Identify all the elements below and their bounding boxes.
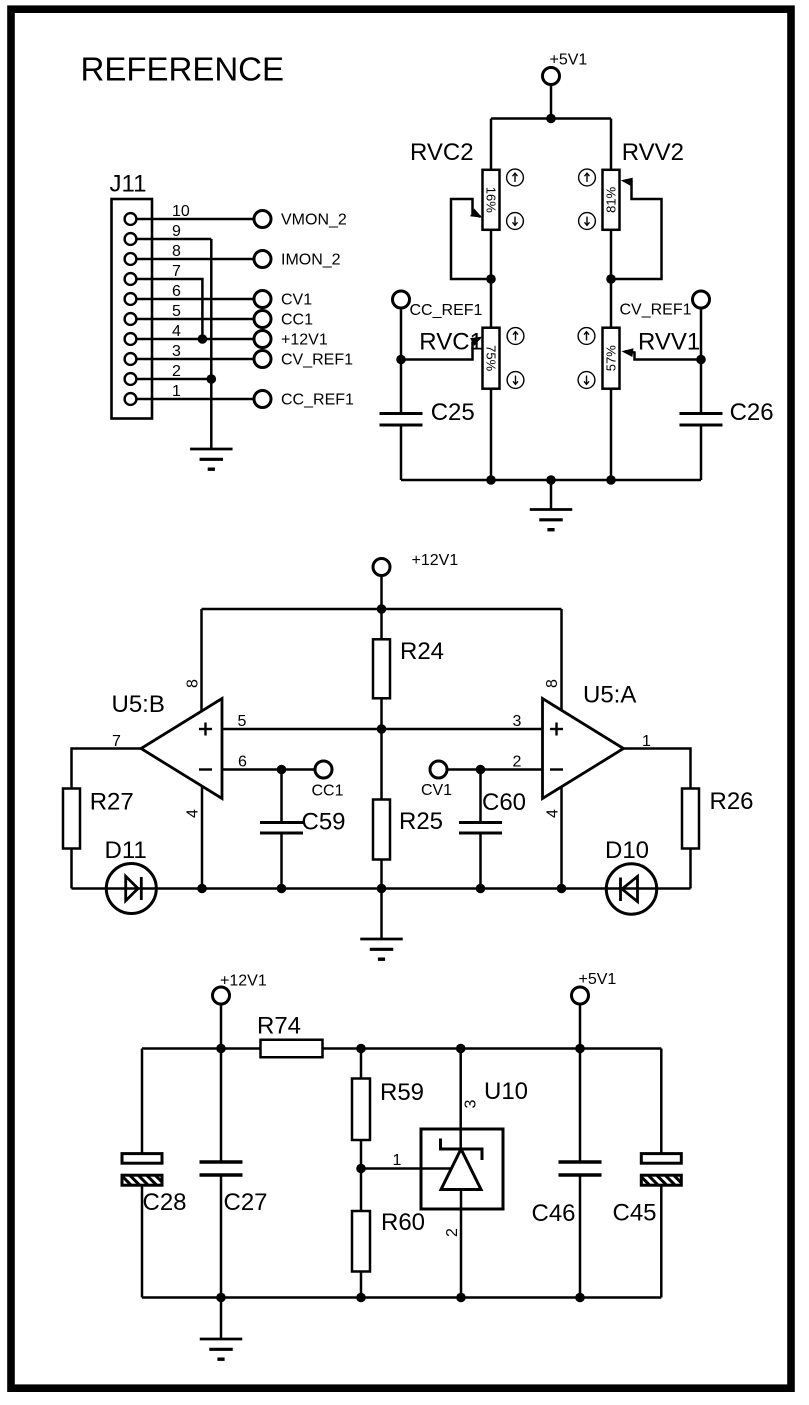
- svg-text:R74: R74: [257, 1013, 301, 1040]
- op-amp U5:A: [543, 699, 624, 799]
- svg-text:4: 4: [544, 809, 561, 818]
- svg-text:CV_REF1: CV_REF1: [281, 351, 353, 368]
- capacitor C46: [559, 1162, 602, 1175]
- wire C28 top stem: [141, 1049, 144, 1154]
- ground bottom section: [200, 1339, 243, 1359]
- junction R60 / bottom rail: [356, 1293, 366, 1303]
- wire CV_REF1 stem: [700, 308, 703, 360]
- svg-text:2: 2: [172, 363, 181, 380]
- wire U10 pin 1: [361, 1167, 452, 1170]
- svg-text:RVV1: RVV1: [638, 329, 700, 356]
- RVV2 adjust arrows: [579, 169, 596, 229]
- terminal +12V1: [254, 331, 271, 348]
- wire C46 top stem: [579, 1049, 582, 1161]
- wire U5:A pin 4 vertical: [560, 782, 563, 889]
- wire ground stem (bottom): [220, 1298, 223, 1340]
- svg-text:RVC2: RVC2: [410, 139, 474, 166]
- junction RVV2 wiper node: [606, 274, 616, 284]
- wire C46 bottom stem: [579, 1175, 582, 1298]
- wire top rail (bottom section): [142, 1047, 661, 1050]
- svg-text:8: 8: [184, 679, 201, 688]
- svg-text:R26: R26: [710, 788, 754, 815]
- wire J11 pin 4 to +12V1 terminal: [137, 338, 255, 341]
- junction R59 / rail: [356, 1044, 366, 1054]
- svg-text:IMON_2: IMON_2: [281, 251, 341, 268]
- svg-text:U10: U10: [484, 1078, 528, 1105]
- svg-text:C45: C45: [613, 1200, 657, 1227]
- wire noninverting inputs pin5-pin3: [222, 728, 543, 731]
- U10 zener cathode bar: [441, 1139, 483, 1161]
- svg-text:+12V1: +12V1: [412, 552, 459, 569]
- svg-text:75%: 75%: [483, 345, 498, 371]
- svg-text:R25: R25: [399, 808, 443, 835]
- svg-text:4: 4: [184, 809, 201, 818]
- svg-text:+5V1: +5V1: [550, 52, 588, 69]
- capacitor C45 (electrolytic): [641, 1154, 681, 1186]
- terminal +12V1 (middle): [373, 559, 390, 576]
- junction R24/R25 node: [377, 724, 387, 734]
- capacitor C59: [260, 823, 303, 834]
- svg-text:8: 8: [172, 243, 181, 260]
- wire U5:B pin 7 output: [72, 749, 142, 789]
- wire R24 top: [380, 609, 383, 639]
- capacitor C28 (electrolytic): [122, 1154, 162, 1186]
- wire C25 top stem: [400, 360, 403, 413]
- wire J11 pin 5 to CC1: [137, 318, 255, 321]
- junction RVV1 bottom: [606, 475, 616, 485]
- J11 pin 10 circle: [125, 213, 137, 225]
- wire R27 bottom: [70, 849, 73, 889]
- wire rail to RVV2 top: [610, 119, 613, 170]
- svg-text:8: 8: [544, 679, 561, 688]
- connector J11 body: [112, 199, 153, 419]
- resistor R24: [373, 639, 390, 698]
- junction +12V1 / rail: [216, 1044, 226, 1054]
- junction +5V1 / rail: [575, 1044, 585, 1054]
- junction CV_REF1 node: [696, 355, 706, 365]
- U10 zener triangle: [441, 1149, 481, 1190]
- svg-text:6: 6: [172, 283, 181, 300]
- wire C26 top stem: [700, 360, 703, 413]
- wire C60 top stem: [479, 770, 482, 822]
- terminal CC1: [254, 311, 271, 328]
- junction R59/R60/U10 pin1: [356, 1164, 366, 1174]
- resistor R26: [682, 789, 699, 849]
- wire R60 top: [360, 1169, 363, 1212]
- junction ground stem top-right: [546, 475, 556, 485]
- wire J11 ground vertical: [210, 239, 213, 449]
- svg-text:C46: C46: [532, 1200, 576, 1227]
- wire reference ground rail: [401, 479, 701, 482]
- resistor R59: [352, 1079, 370, 1141]
- terminal CC_REF1 (top): [393, 291, 410, 308]
- wire U5:A pin 2 to CV1: [447, 768, 543, 771]
- terminal CV1 (middle): [430, 761, 447, 778]
- junction J11 pin2/ground: [207, 374, 217, 384]
- wire C27 bottom stem: [220, 1175, 223, 1298]
- svg-text:CC1: CC1: [311, 783, 343, 800]
- wire R24 bottom: [380, 698, 383, 729]
- svg-text:U5:B: U5:B: [112, 691, 165, 718]
- wire C59 top stem: [280, 770, 283, 822]
- wire RVC2 wiper: [451, 199, 491, 279]
- wire +5V1 stem (bottom): [579, 1004, 582, 1049]
- wire RVC2 bottom to RVC1 top: [490, 230, 493, 328]
- svg-text:81%: 81%: [604, 186, 619, 212]
- capacitor C26: [680, 414, 723, 426]
- wire J11 pin 7 to +12V1 net: [137, 279, 203, 339]
- wire C25 bottom stem: [400, 427, 403, 481]
- wire U10 pin 3 vertical: [459, 1049, 462, 1150]
- wire RVV1 bottom: [610, 389, 613, 480]
- J11 pin 5 circle: [125, 313, 137, 325]
- svg-text:D10: D10: [605, 837, 649, 864]
- svg-text:1: 1: [393, 1152, 402, 1169]
- J11 pin 4 circle: [125, 333, 137, 345]
- junction C46 / bottom rail: [575, 1293, 585, 1303]
- wire +12V1 stem (bottom): [220, 1004, 223, 1049]
- terminal IMON_2: [254, 251, 271, 268]
- op-amp U5:B: [141, 699, 222, 799]
- junction C59 / rail: [277, 884, 287, 894]
- junction C60 / rail: [476, 884, 486, 894]
- wire C59 bottom stem: [280, 835, 283, 889]
- J11 pin 7 circle: [125, 273, 137, 285]
- svg-text:+12V1: +12V1: [281, 331, 328, 348]
- svg-text:+5V1: +5V1: [579, 971, 617, 988]
- svg-text:1: 1: [642, 733, 651, 750]
- svg-text:2: 2: [444, 1228, 461, 1237]
- wire J11 pin 9 to ground net: [137, 238, 212, 241]
- wire R25 bottom: [380, 860, 383, 889]
- capacitor C25: [380, 414, 423, 426]
- svg-text:9: 9: [172, 223, 181, 240]
- svg-text:R27: R27: [90, 789, 134, 816]
- J11 pin 1 circle: [125, 393, 137, 405]
- RVC2 adjust arrows: [507, 169, 524, 229]
- svg-text:C59: C59: [302, 809, 346, 836]
- svg-text:R59: R59: [380, 1079, 424, 1106]
- svg-text:+12V1: +12V1: [220, 973, 267, 990]
- svg-text:CV1: CV1: [421, 782, 452, 799]
- resistor R60: [352, 1211, 370, 1272]
- resistor R27: [63, 789, 80, 849]
- capacitor C60: [459, 823, 502, 834]
- RVV2 wiper arrowhead: [621, 178, 633, 187]
- wire U5:B pin 4 vertical: [201, 782, 204, 889]
- svg-text:R60: R60: [381, 1209, 425, 1236]
- J11 pin 8 circle: [125, 253, 137, 265]
- wire rail to RVC2 top: [490, 119, 493, 170]
- wire J11 pin 6 to CV1: [137, 298, 255, 301]
- wire RVV2 wiper: [611, 181, 662, 279]
- junction U5:B pin4 / rail: [197, 884, 207, 894]
- svg-text:7: 7: [172, 263, 181, 280]
- wire U5:A pin 8 vertical: [560, 609, 563, 715]
- junction C60 node: [476, 765, 486, 775]
- svg-text:J11: J11: [110, 171, 147, 198]
- svg-text:2: 2: [513, 754, 522, 771]
- svg-text:5: 5: [172, 303, 181, 320]
- wire J11 pin 1 to CC_REF1: [137, 398, 255, 401]
- wire J11 pin 3 to CV_REF1: [137, 358, 255, 361]
- svg-text:57%: 57%: [604, 345, 619, 371]
- svg-text:C60: C60: [482, 789, 526, 816]
- diode D10: [606, 864, 656, 914]
- svg-text:C28: C28: [143, 1189, 187, 1216]
- terminal CC_REF1: [254, 391, 271, 408]
- wire C60 bottom stem: [479, 835, 482, 889]
- RVC2 wiper arrowhead: [470, 209, 482, 218]
- wire RVC1 wiper: [401, 338, 480, 360]
- svg-text:C25: C25: [431, 399, 475, 426]
- svg-text:VMON_2: VMON_2: [281, 211, 347, 228]
- wire J11 pin 2 to ground net: [137, 378, 212, 381]
- svg-text:4: 4: [172, 323, 181, 340]
- wire R60 bottom: [360, 1272, 363, 1298]
- J11 pin 2 circle: [125, 373, 137, 385]
- svg-text:D11: D11: [105, 837, 147, 864]
- svg-text:CV1: CV1: [281, 291, 312, 308]
- terminal +5V1 (top): [543, 68, 560, 85]
- junction C27 / bottom rail: [216, 1293, 226, 1303]
- svg-text:CC_REF1: CC_REF1: [410, 302, 483, 319]
- terminal VMON_2: [254, 211, 271, 228]
- voltage reference U10 body: [421, 1129, 503, 1209]
- terminal CV1: [254, 291, 271, 308]
- wire J11 pin 8 to IMON_2: [137, 258, 255, 261]
- wire CC_REF1 stem: [400, 308, 403, 360]
- wire U10 pin 2 vertical: [460, 1190, 463, 1298]
- terminal CV_REF1 (top): [693, 291, 710, 308]
- wire RVC1 bottom: [490, 389, 493, 480]
- RVC1 wiper arrowhead: [470, 337, 482, 346]
- svg-text:10: 10: [172, 203, 190, 220]
- terminal +12V1 (bottom): [213, 987, 230, 1004]
- terminal +5V1 (bottom): [572, 987, 589, 1004]
- diode D11: [106, 864, 156, 914]
- wire R25 top: [380, 729, 383, 800]
- svg-text:6: 6: [238, 754, 247, 771]
- wire +5V1 rail: [491, 117, 611, 120]
- potentiometer RVV1: [603, 328, 620, 389]
- junction J11 pin7/pin4: [198, 334, 208, 344]
- terminal CV_REF1: [254, 351, 271, 368]
- wire C26 bottom stem: [700, 427, 703, 481]
- junction RVC1 bottom: [486, 475, 496, 485]
- resistor R25: [373, 800, 390, 860]
- RVV1 adjust arrows: [578, 328, 595, 389]
- svg-text:CC_REF1: CC_REF1: [281, 391, 354, 408]
- wire C45 bottom stem: [660, 1186, 663, 1298]
- wire +5V1 stem: [550, 85, 553, 119]
- svg-text:3: 3: [513, 713, 522, 730]
- wire bottom rail (middle): [72, 887, 691, 890]
- wire U5:B pin 8 vertical: [200, 609, 203, 715]
- svg-text:CV_REF1: CV_REF1: [620, 302, 692, 319]
- capacitor C27: [200, 1162, 243, 1175]
- RVC1 adjust arrows: [507, 328, 524, 389]
- J11 pin 9 circle: [125, 233, 137, 245]
- ground below J11: [190, 449, 233, 469]
- wire J11 pin 10 to VMON_2: [137, 218, 255, 221]
- junction U5:A pin4 / rail: [557, 884, 567, 894]
- junction U10 pin2 / bottom rail: [456, 1293, 466, 1303]
- RVV1 wiper arrowhead: [622, 348, 634, 357]
- junction RVC2 wiper node: [486, 274, 496, 284]
- wire U5:A pin 1 output: [624, 749, 691, 789]
- svg-text:C27: C27: [224, 1189, 268, 1216]
- svg-text:RVV2: RVV2: [622, 139, 684, 166]
- wire ground stem top-right: [550, 480, 553, 510]
- wire R59 bottom: [360, 1140, 363, 1169]
- J11 pin 3 circle: [125, 353, 137, 365]
- wire +12V1 stem (middle): [380, 576, 383, 610]
- svg-text:3: 3: [172, 343, 181, 360]
- wire R59 top: [360, 1049, 363, 1079]
- junction CC_REF1 node: [396, 355, 406, 365]
- junction R25 / rail: [377, 884, 387, 894]
- svg-text:16%: 16%: [483, 187, 498, 213]
- svg-text:CC1: CC1: [281, 311, 313, 328]
- wire RVV2 bottom to RVV1 top: [610, 230, 613, 328]
- svg-text:U5:A: U5:A: [583, 682, 636, 709]
- junction +5V1 rail: [546, 114, 556, 124]
- svg-text:7: 7: [112, 733, 121, 750]
- potentiometer RVC2: [483, 170, 500, 230]
- ground middle section: [360, 939, 403, 959]
- J11 pin 6 circle: [125, 293, 137, 305]
- junction C59 node: [277, 765, 287, 775]
- wire C27 top stem: [220, 1049, 223, 1161]
- svg-text:R24: R24: [400, 638, 444, 665]
- ground top-right section: [530, 510, 573, 530]
- junction U10 pin3 / rail: [456, 1044, 466, 1054]
- potentiometer RVV2: [603, 170, 620, 230]
- svg-text:C26: C26: [730, 399, 774, 426]
- wire bottom rail (bottom section): [142, 1296, 661, 1299]
- svg-text:1: 1: [172, 383, 181, 400]
- wire U5:B pin 6 to CC1: [222, 768, 315, 771]
- junction +12V1 rail center: [377, 604, 387, 614]
- svg-text:5: 5: [238, 713, 247, 730]
- wire C45 top stem: [660, 1049, 663, 1154]
- svg-text:REFERENCE: REFERENCE: [81, 51, 285, 88]
- wire +12V1 rail (middle): [202, 608, 562, 611]
- wire ground stem (middle): [380, 889, 383, 940]
- wire RVV1 wiper: [625, 351, 701, 359]
- resistor R74: [261, 1040, 323, 1058]
- potentiometer RVC1: [483, 328, 500, 389]
- svg-text:3: 3: [462, 1099, 479, 1108]
- terminal CC1 (middle): [315, 761, 332, 778]
- wire C28 bottom stem: [141, 1186, 144, 1298]
- wire R26 bottom: [689, 849, 692, 889]
